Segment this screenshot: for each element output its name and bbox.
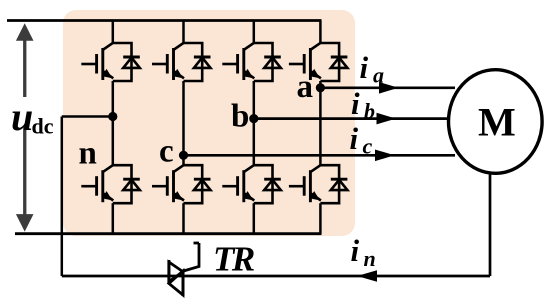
transistor Q1 (IGBT)	[81, 43, 113, 80]
arrow i_a	[379, 82, 399, 94]
svg-text:c: c	[363, 134, 373, 159]
svg-text:i: i	[351, 233, 360, 268]
arrow i_b	[377, 113, 397, 125]
diode D2 (antiparallel)	[184, 43, 211, 81]
triac TR	[169, 243, 199, 296]
svg-text:i: i	[350, 121, 359, 156]
wire: phase c output	[184, 154, 456, 157]
wire: phase b output	[254, 117, 450, 120]
arrow i_n	[357, 270, 377, 282]
svg-text:TR: TR	[213, 239, 255, 278]
transistor Q4 (IGBT)	[289, 43, 321, 80]
svg-text:b: b	[364, 99, 375, 124]
diode D5 (antiparallel)	[113, 165, 140, 203]
diode D7 (antiparallel)	[254, 165, 281, 203]
diode D1 (antiparallel)	[113, 43, 140, 81]
inverter highlight box	[63, 10, 355, 236]
svg-text:dc: dc	[32, 114, 54, 139]
wire: node n to left rail	[62, 115, 113, 118]
wire: phase leg 1 vertical	[112, 21, 115, 234]
svg-text:u: u	[11, 94, 33, 139]
motor M	[449, 70, 543, 174]
wire: phase leg 2 vertical	[182, 21, 185, 234]
wire: phase a output	[320, 86, 455, 89]
arrow i_c	[375, 150, 395, 162]
svg-text:M: M	[478, 100, 516, 145]
wire: neutral return (i_n)	[62, 275, 490, 278]
wire: left rail down to TR line	[61, 117, 64, 277]
diode D6 (antiparallel)	[184, 165, 211, 203]
diode D3 (antiparallel)	[254, 43, 281, 81]
wire: motor neutral drop	[489, 170, 492, 276]
svg-text:n: n	[364, 246, 376, 271]
svg-text:i: i	[351, 86, 360, 121]
svg-text:c: c	[159, 133, 174, 169]
transistor Q3 (IGBT)	[222, 43, 254, 80]
wire: phase leg 3 vertical	[253, 21, 256, 234]
transistor Q5 (IGBT)	[81, 165, 113, 202]
u_dc measurement arrow (up)	[16, 23, 34, 97]
wire: positive DC bus (top)	[7, 19, 322, 22]
wire: phase leg 4 vertical	[319, 21, 322, 234]
transistor Q7 (IGBT)	[222, 165, 254, 202]
transistor Q6 (IGBT)	[152, 165, 184, 202]
svg-text:n: n	[79, 136, 97, 172]
svg-text:a: a	[297, 69, 314, 105]
node b	[249, 114, 258, 123]
diode D8 (antiparallel)	[320, 165, 347, 203]
transistor Q8 (IGBT)	[289, 165, 321, 202]
svg-text:i: i	[360, 50, 369, 85]
diode D4 (antiparallel)	[320, 43, 347, 81]
node a	[316, 83, 325, 92]
transistor Q2 (IGBT)	[152, 43, 184, 80]
node c	[179, 151, 188, 160]
svg-text:a: a	[373, 63, 384, 88]
node n	[108, 112, 117, 121]
wire: negative DC bus (bottom)	[15, 232, 322, 235]
svg-text:b: b	[231, 99, 249, 135]
u_dc measurement arrow (down)	[16, 127, 34, 232]
